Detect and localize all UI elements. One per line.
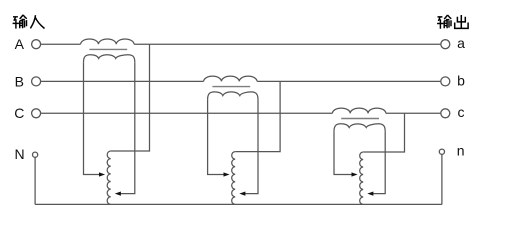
- wire T1 secondary left end to wiper: [84, 62, 100, 174]
- wire T1 secondary right end to wiper: [121, 62, 135, 193]
- wire phase C input segment: [41, 112, 332, 114]
- label 输出 (output): [437, 15, 468, 29]
- label 输入 (input): [13, 15, 45, 29]
- transformer T3 primary winding: [332, 108, 385, 113]
- wire T3 secondary left end to wiper: [334, 131, 352, 174]
- wire phase B input segment: [41, 80, 204, 82]
- svg-text:n: n: [457, 143, 465, 159]
- svg-text:b: b: [457, 72, 465, 88]
- wiper arrow B upper: [224, 172, 230, 176]
- svg-text:a: a: [457, 35, 465, 51]
- wiper arrow B lower: [239, 192, 245, 196]
- rheostat RA: [107, 151, 111, 204]
- transformer T3 core: [341, 118, 379, 120]
- wiper arrow C upper: [352, 172, 358, 176]
- wire phase B output segment: [257, 80, 440, 82]
- wiper arrow A upper: [99, 172, 105, 176]
- transformer T1 core: [89, 48, 127, 50]
- transformer T3 secondary winding: [334, 124, 385, 132]
- wire phase A input segment: [41, 43, 81, 45]
- svg-text:C: C: [14, 105, 24, 121]
- terminal B: [32, 77, 41, 86]
- transformer T2 secondary winding: [208, 92, 258, 100]
- wire phase C output segment: [386, 112, 441, 114]
- terminal C: [32, 109, 41, 118]
- wire N terminal down: [34, 157, 36, 204]
- svg-text:B: B: [15, 73, 24, 89]
- terminal a: [441, 40, 450, 49]
- wire phase A output segment: [134, 43, 440, 45]
- wire T2 secondary right end to wiper: [245, 99, 258, 193]
- rheostat RC: [360, 152, 364, 204]
- wire phase B to rheostat top: [235, 81, 280, 151]
- terminal b: [441, 77, 450, 86]
- transformer T2 core: [212, 86, 250, 88]
- transformer T1 secondary winding: [84, 55, 135, 63]
- terminal c: [441, 109, 450, 118]
- terminal N: [33, 152, 38, 157]
- wire T3 secondary right end to wiper: [373, 131, 385, 193]
- wire phase C to rheostat top: [363, 113, 404, 152]
- transformer T1 primary winding: [81, 39, 134, 44]
- wiper arrow A lower: [115, 192, 121, 196]
- svg-text:N: N: [15, 146, 25, 162]
- wiper arrow C lower: [367, 192, 373, 196]
- transformer T2 primary winding: [204, 76, 257, 81]
- wire neutral bus: [35, 203, 442, 205]
- svg-text:A: A: [15, 36, 25, 52]
- rheostat RB: [232, 152, 235, 205]
- wire phase A to rheostat top: [111, 44, 150, 151]
- wire n terminal down: [441, 154, 443, 204]
- svg-text:c: c: [458, 104, 465, 120]
- terminal n: [439, 149, 444, 154]
- wire T2 secondary left end to wiper: [208, 99, 224, 174]
- terminal A: [32, 40, 41, 49]
